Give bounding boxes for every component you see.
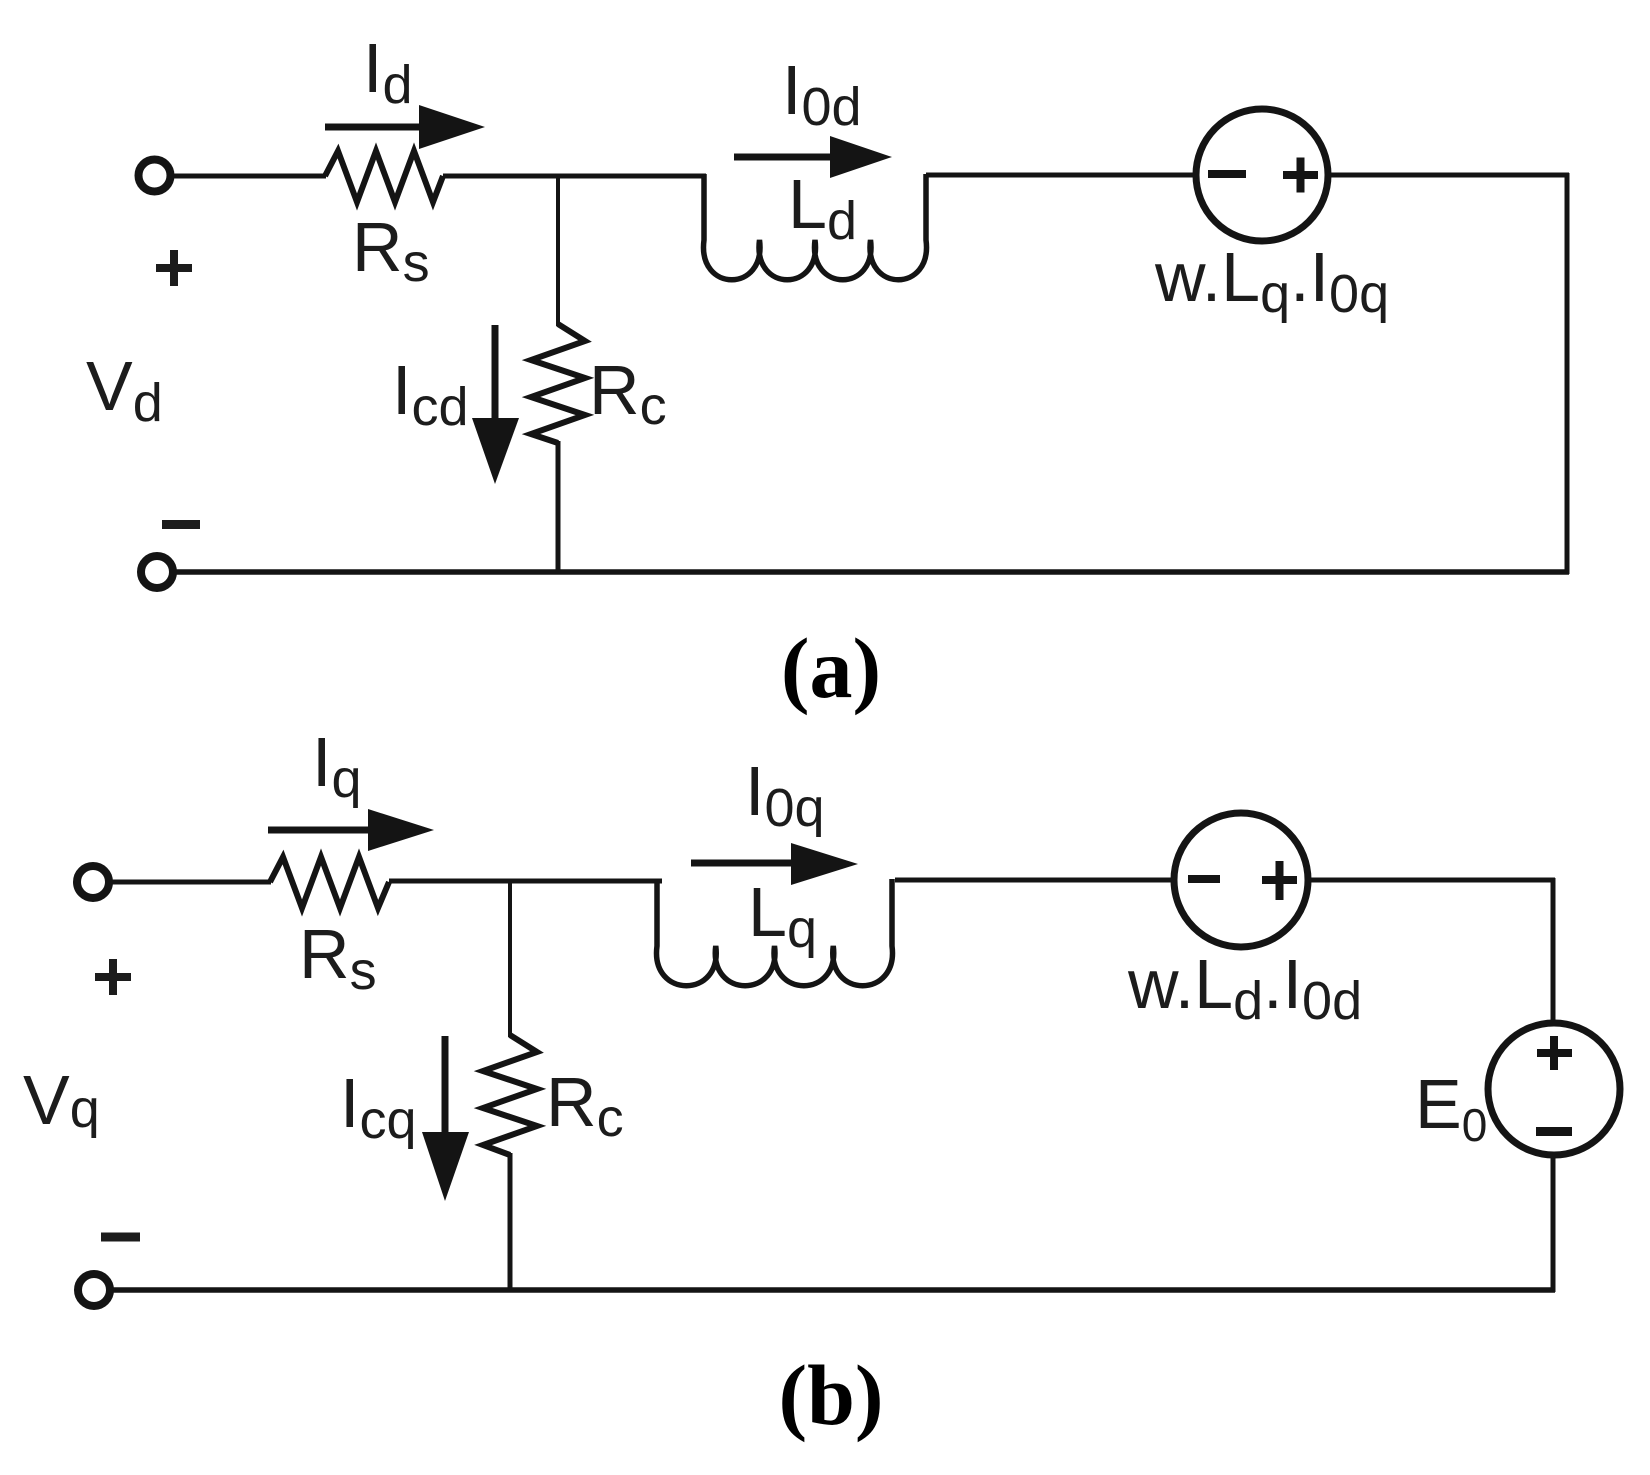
svg-text:Rs: Rs <box>299 915 377 1001</box>
current arrow Icq <box>422 1036 469 1201</box>
minus sign (Vd polarity) <box>162 520 200 529</box>
source E0 (circle) <box>1488 1023 1620 1155</box>
svg-text:I0q: I0q <box>745 752 825 838</box>
svg-text:w.Ld.I0d: w.Ld.I0d <box>1127 945 1362 1031</box>
wire Rs to inductor Ld, node A <box>443 174 706 179</box>
svg-text:w.Lq.I0q: w.Lq.I0q <box>1154 238 1389 324</box>
svg-text:(b): (b) <box>778 1347 883 1443</box>
minus sign (Vq polarity) <box>101 1233 140 1242</box>
svg-text:Ld: Ld <box>788 165 857 251</box>
svg-text:Id: Id <box>363 29 413 115</box>
wire Rc to bottom rail (b) <box>508 1153 513 1292</box>
wire right side below E0 <box>1551 1153 1556 1292</box>
wire node A down to Rc <box>556 176 560 326</box>
svg-text:Rc: Rc <box>589 351 667 436</box>
inductor Lq <box>657 879 893 986</box>
wire from Vq+ terminal to Rs <box>110 880 271 885</box>
wire Ld to source <box>926 173 1198 178</box>
svg-text:Icd: Icd <box>392 351 469 437</box>
svg-text:Iq: Iq <box>312 723 362 809</box>
wire source to top-right corner <box>1327 173 1569 178</box>
current arrow Iq <box>268 809 434 851</box>
resistor Rs (circuit a) <box>325 151 443 202</box>
wire from Vd+ terminal to Rs <box>171 174 326 179</box>
dependent source w.Lq.I0q (circle) <box>1196 109 1328 241</box>
svg-text:Rs: Rs <box>352 208 430 293</box>
terminal Vd- (bottom-left open circle) <box>141 556 173 588</box>
inductor Ld <box>704 174 927 280</box>
current arrow I0d <box>734 136 892 178</box>
svg-text:I0d: I0d <box>782 51 862 137</box>
current arrow Id <box>325 105 485 149</box>
resistor Rs (circuit b) <box>270 857 389 908</box>
svg-text:Lq: Lq <box>748 873 817 959</box>
plus sign (Vd polarity) <box>156 250 192 286</box>
wire bottom rail (a) <box>172 569 1569 575</box>
svg-text:Rc: Rc <box>546 1063 624 1148</box>
svg-text:Vq: Vq <box>23 1061 100 1139</box>
svg-text:Icq: Icq <box>340 1064 417 1150</box>
current arrow Icd <box>472 325 519 484</box>
plus sign (Vq polarity) <box>95 959 131 995</box>
resistor Rc (circuit b, shunt) <box>483 1035 537 1155</box>
wire node B down to Rc <box>508 881 512 1037</box>
wire source to top-right corner (b) <box>1307 878 1555 883</box>
wire bottom rail (b) <box>110 1287 1555 1293</box>
wire Rs to inductor Lq, node B <box>389 879 662 884</box>
current arrow I0q <box>691 843 858 885</box>
dependent source w.Ld.I0d (circle) <box>1174 813 1308 947</box>
wire Lq to source <box>895 878 1176 883</box>
svg-text:(a): (a) <box>781 620 881 716</box>
terminal Vq+ (top-left open circle) <box>77 866 109 898</box>
wire right side (a) <box>1565 173 1570 574</box>
terminal Vq- (bottom-left open circle) <box>78 1274 110 1306</box>
svg-text:Vd: Vd <box>86 347 163 433</box>
svg-text:E0: E0 <box>1415 1065 1487 1151</box>
terminal Vd+ (top-left open circle) <box>139 160 171 192</box>
resistor Rc (circuit a, shunt) <box>531 324 585 443</box>
wire right side above E0 <box>1551 878 1556 1025</box>
wire Rc to bottom rail <box>556 441 561 574</box>
